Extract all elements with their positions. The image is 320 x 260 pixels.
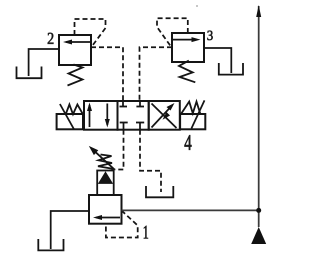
valve 4 crossed arrow up-right xyxy=(152,103,175,128)
wire dashed valve 4 to tank T4 xyxy=(140,130,161,192)
valve 3 spring xyxy=(179,61,195,83)
valve 3 pilot line dashed loop xyxy=(157,18,188,48)
valve 4 left position up arrow xyxy=(87,103,92,128)
valve 4 center blocked port bottom-left xyxy=(120,123,128,130)
valve 2 internal arrow xyxy=(63,40,91,45)
label 1 xyxy=(144,226,148,239)
wire valve 3 right port xyxy=(204,48,231,73)
label 4 xyxy=(184,135,191,150)
valve 4 center blocked port bottom-right xyxy=(136,123,144,130)
valve 4 center blocked port top-right xyxy=(136,101,144,107)
valve 4 right solenoid diagonal xyxy=(191,100,204,128)
relief valve 1 main body xyxy=(89,195,122,224)
valve 1 adjustable spring xyxy=(98,155,113,172)
junction node xyxy=(256,208,261,213)
valve 4 left solenoid diagonal xyxy=(60,104,74,129)
valve 1 spring adjustment arrow xyxy=(89,146,115,170)
valve 3 internal arrow xyxy=(172,37,201,42)
valve 1 pilot poppet box xyxy=(97,171,114,196)
valve 4 left spring xyxy=(66,105,83,115)
valve 4 right spring xyxy=(181,102,200,114)
pressure source triangle xyxy=(251,227,266,244)
valve 4 left solenoid box xyxy=(57,114,83,129)
flow direction arrowhead xyxy=(256,5,261,17)
wire valve 1 left port to tank xyxy=(51,211,89,249)
valve 4 crossed line xyxy=(152,104,177,129)
valve 4 right solenoid box xyxy=(180,114,205,129)
valve 2 pilot line dashed loop xyxy=(75,19,106,48)
tank T2 xyxy=(17,67,42,79)
tank T1 xyxy=(38,239,63,250)
wire dashed valve 3 to valve 4 port xyxy=(140,47,173,101)
directional valve 4 right position square xyxy=(149,101,180,130)
wire pump riser xyxy=(258,6,260,227)
valve 1 internal arrow xyxy=(93,215,120,220)
valve 4 left position down arrow xyxy=(105,104,110,128)
wire dashed valve 2 to valve 4 port xyxy=(91,47,123,101)
scan speck xyxy=(196,5,198,7)
valve 2 spring xyxy=(68,65,83,86)
tank T4 xyxy=(146,186,173,197)
relief valve 2 body xyxy=(59,35,91,65)
wire valve 2 left port xyxy=(29,49,59,76)
valve 4 crossed arrowhead down-left xyxy=(163,112,171,120)
relief valve 3 body xyxy=(172,33,204,62)
label 2 xyxy=(48,33,54,44)
wire dashed valve 4 to relief valve 1 pilot xyxy=(115,130,124,170)
tank T3 xyxy=(219,63,243,75)
valve 1 pilot poppet cone xyxy=(98,171,113,184)
valve 4 center blocked port top-left xyxy=(120,101,128,107)
valve 1 drain dashed loop xyxy=(106,210,138,237)
label 3 xyxy=(207,31,212,40)
wire pressure line P xyxy=(121,209,258,211)
directional valve 4 body left position square xyxy=(84,101,118,130)
directional valve 4 center position square xyxy=(118,101,149,130)
